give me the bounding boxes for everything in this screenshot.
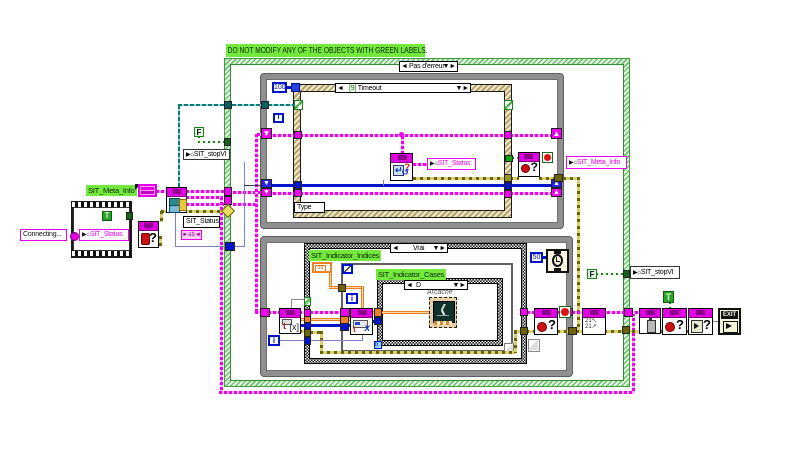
pink tunnels on case left border xyxy=(224,187,232,196)
node A (index array) xyxy=(279,308,301,334)
black wedge xyxy=(135,184,141,190)
while loop (bottom) gray border xyxy=(260,236,573,377)
global label SIT_stopVI (right) xyxy=(630,266,680,279)
blue tunnel on case border xyxy=(225,242,235,251)
T constant (right) xyxy=(663,291,674,303)
green tunnel on case border (F wire) xyxy=(224,138,231,146)
boolean constant F (left) xyxy=(194,127,204,137)
indicator icon (dashed) xyxy=(429,297,457,328)
array constant xyxy=(312,262,332,273)
error node 3 (bottom loop) xyxy=(534,308,558,335)
SR pink left top loop xyxy=(261,128,272,139)
wire: blue ref from abc node to case tunnel xyxy=(175,213,176,247)
label Type xyxy=(294,202,325,213)
wire: olive node A to case xyxy=(299,330,309,333)
small blue box on cases case bottom xyxy=(374,341,382,349)
green label SIT_Indicator_Cases xyxy=(376,269,446,280)
wire: pink bottom rail xyxy=(219,391,634,394)
wire: pink node A to case xyxy=(299,311,309,314)
wire: writeVI blue stub xyxy=(383,180,384,186)
EXIT icon xyxy=(718,308,741,335)
clock icon xyxy=(546,249,569,273)
wire: error out of open node xyxy=(161,210,223,213)
wire: boolean F to tunnel xyxy=(198,136,200,142)
pink dot tunnel on sequence border xyxy=(70,232,79,241)
write VI (SIT status write) xyxy=(390,153,413,181)
SR pink right top loop xyxy=(551,128,562,139)
teal junction on loop border xyxy=(261,101,269,109)
wire: pink lower across xyxy=(268,192,296,195)
error node 1 xyxy=(138,221,159,248)
for loop dog-ear xyxy=(504,343,514,353)
for loop thin border xyxy=(341,263,513,352)
wire: orange node A to case xyxy=(299,318,309,321)
abc property node xyxy=(181,230,202,240)
green tunnel on sequence right border xyxy=(126,212,133,220)
T constant in sequence xyxy=(102,211,112,221)
stop terminal bottom loop xyxy=(559,306,571,318)
wire: pink right rail up xyxy=(632,313,635,393)
cases case left tunnels xyxy=(374,308,382,317)
wire: pink case to for loop xyxy=(310,311,350,314)
flat sequence (film strip) xyxy=(71,201,132,258)
Vrai case selector tunnel xyxy=(304,297,311,306)
wire: blue node A to case xyxy=(299,324,309,327)
wire: error inside Vrai case bottom xyxy=(310,331,322,334)
wire: pink event to SR right xyxy=(510,134,553,137)
timeout terminal xyxy=(291,83,300,92)
green label SIT_Indicator_Indices xyxy=(309,250,381,261)
event structure border (hatched tan) xyxy=(293,84,512,218)
wire: orange inside cases case to icon xyxy=(382,311,429,314)
pink label SIT_Meta_Info (right) xyxy=(566,156,627,169)
green label SIT_Meta_Info (left) xyxy=(86,185,137,196)
VI3 play ? xyxy=(688,308,713,335)
VI2 error ? xyxy=(662,308,687,335)
bottom loop right pink tunnel xyxy=(565,308,573,316)
wire: pink tunnel to VI1 xyxy=(630,311,640,314)
wire: blue node B to cases case xyxy=(371,320,379,323)
case structure SIT_Indicator_Cases checkered border xyxy=(377,278,503,346)
pink cluster constant xyxy=(138,184,157,197)
wire: VI3 to EXIT thin xyxy=(712,321,719,322)
error node 2 (in top loop right) xyxy=(518,152,540,177)
wire: boolean to stop xyxy=(512,157,520,159)
wire: open node out to case tunnel xyxy=(186,190,226,193)
SR blue+pink left xyxy=(261,179,272,188)
wire: error outside to VI chain xyxy=(576,330,640,333)
wire: T to VI2 xyxy=(669,302,671,309)
dyn event tunnel on event left border xyxy=(294,100,303,110)
case structure Vrai checkered border xyxy=(304,243,527,364)
wire: 100 to timeout terminal xyxy=(285,86,292,89)
wire: error node to loop border xyxy=(539,177,557,180)
wire: long pink down left side xyxy=(220,197,223,392)
i terminal for loop xyxy=(346,293,358,304)
wire: pink into node A xyxy=(268,311,280,314)
junction dot xyxy=(399,132,404,137)
open node (SIT open VI) xyxy=(166,187,187,213)
wire: i terminal to case tunnel xyxy=(278,340,306,341)
Arcache text xyxy=(427,288,457,297)
wire: pink inside case to bottom loop xyxy=(233,203,258,206)
for loop tunnels xyxy=(338,284,346,292)
error diamond junction xyxy=(221,204,235,218)
N diagonal terminal xyxy=(342,264,353,274)
pink label SIT_Status (event) xyxy=(427,158,476,170)
while loop (top) gray border xyxy=(260,73,564,229)
i terminal bottom loop xyxy=(268,335,280,346)
SR blue+pink right xyxy=(551,179,562,188)
wire: error ?node to border xyxy=(557,330,571,333)
Vrai case dog-ear xyxy=(528,339,540,352)
case structure (Pas d'erreur) green hatched border xyxy=(224,58,630,387)
wire: error from write VI to right xyxy=(413,177,506,180)
olive junction on loop right border xyxy=(554,174,563,182)
label: DO NOT MODIFY xyxy=(226,44,425,57)
wire: 50 to clock xyxy=(541,256,547,259)
i terminal top loop xyxy=(273,113,284,123)
teal junction on case border xyxy=(224,101,232,109)
wire: orange case to node B xyxy=(310,318,351,321)
wire: teal string vertical into open node xyxy=(178,105,180,188)
pink label SIT_Status in sequence xyxy=(79,229,129,241)
selector: Pas d'erreur xyxy=(399,61,458,72)
50 constant xyxy=(530,252,543,263)
VI fix node (close) xyxy=(582,308,606,335)
wire: pink across event xyxy=(300,134,506,137)
wire: pink drop to write VI xyxy=(401,136,404,154)
wire: pink lower branch xyxy=(186,203,226,206)
wire: gray thin from node A top to selector xyxy=(291,299,305,300)
case right olive junction xyxy=(622,326,630,334)
node B (index array 2) xyxy=(350,308,373,335)
stop terminal top loop xyxy=(542,152,553,163)
constant: 100 xyxy=(272,82,287,93)
wire: error case to ?node xyxy=(526,330,535,333)
bottom loop left pink tunnel xyxy=(260,308,270,317)
event right tunnels xyxy=(504,100,513,110)
F constant (right) xyxy=(587,269,597,279)
wire: error stub from error node xyxy=(159,236,162,246)
wire: pink cluster const to open node xyxy=(156,190,168,193)
VI1 battery xyxy=(639,308,661,334)
wire: error outside loop going down xyxy=(563,177,579,180)
Vrai case left tunnels xyxy=(304,309,311,317)
wire: F to SIT_stopVI tunnel right xyxy=(596,273,624,275)
wire: orange node B to cases case xyxy=(371,311,379,314)
case right green tunnel xyxy=(623,270,630,278)
Vrai case right tunnels xyxy=(520,308,528,316)
bottom loop right olive junction xyxy=(568,327,577,335)
wire: pink SR to event tunnel xyxy=(268,134,296,137)
event left tunnels xyxy=(294,131,302,139)
wire: orange from array const to node B xyxy=(329,271,332,287)
wire: pink through loop to right xyxy=(527,311,632,314)
wire: blue across xyxy=(268,184,296,187)
selector Vrai xyxy=(390,243,448,253)
case right pink tunnel xyxy=(624,308,633,317)
wire: pink mid xyxy=(186,196,223,199)
wire: pink write VI to SIT_Status label xyxy=(413,163,427,166)
label EIT_Status xyxy=(183,216,220,228)
wire: blue inside case xyxy=(310,340,363,341)
global label SIT_stopVI (left) xyxy=(183,149,230,160)
selector D xyxy=(404,280,468,290)
wire: teal string horizontal to event structure xyxy=(178,104,298,106)
sequence: Connecting... constant xyxy=(20,229,67,241)
selector: [9] Timeout xyxy=(335,83,471,93)
